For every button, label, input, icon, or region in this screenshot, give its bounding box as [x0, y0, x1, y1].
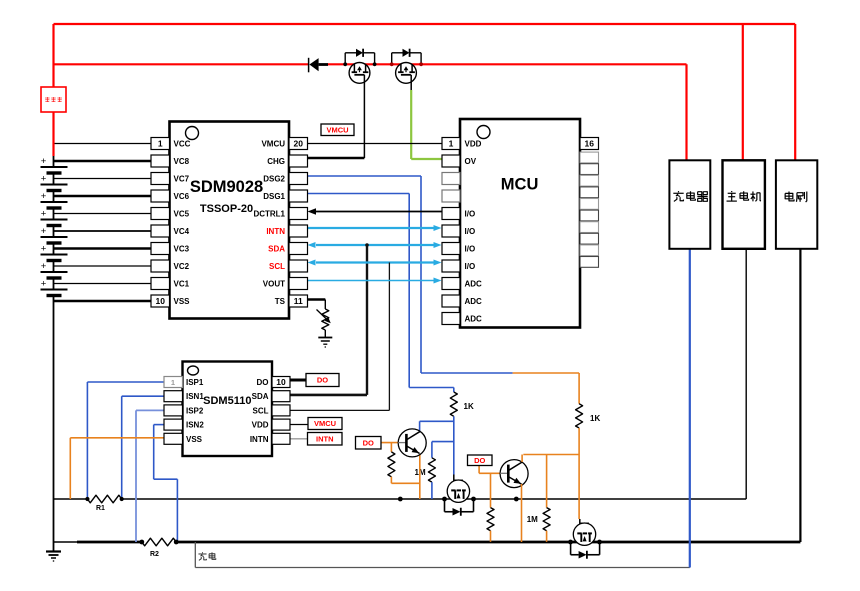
svg-text:DO: DO: [257, 378, 269, 387]
svg-text:1K: 1K: [590, 414, 600, 423]
svg-text:VMCU: VMCU: [314, 419, 336, 428]
svg-text:INTN: INTN: [266, 227, 285, 236]
svg-text:1: 1: [449, 139, 454, 149]
svg-text:ISP1: ISP1: [186, 378, 204, 387]
svg-text:ADC: ADC: [465, 315, 483, 324]
svg-text:CHG: CHG: [267, 157, 285, 166]
svg-text:1: 1: [171, 378, 175, 387]
svg-text:+: +: [41, 156, 47, 167]
svg-text:VC4: VC4: [174, 227, 190, 236]
svg-text:1: 1: [158, 139, 163, 149]
svg-text:TSSOP-20: TSSOP-20: [200, 203, 253, 215]
svg-text:10: 10: [156, 296, 166, 306]
svg-text:ISP2: ISP2: [186, 406, 204, 415]
svg-text:10: 10: [276, 377, 286, 387]
svg-text:I/O: I/O: [465, 245, 476, 254]
svg-text:VOUT: VOUT: [263, 280, 285, 289]
svg-text:VC2: VC2: [174, 262, 190, 271]
svg-text:SDM9028: SDM9028: [190, 178, 263, 196]
svg-text:SDA: SDA: [268, 245, 285, 254]
svg-text:+: +: [41, 174, 47, 185]
svg-text:R1: R1: [96, 505, 105, 512]
svg-text:16: 16: [585, 139, 595, 149]
svg-text:INTN: INTN: [316, 434, 334, 443]
svg-text:SDM5110: SDM5110: [203, 395, 251, 407]
svg-text:+: +: [41, 209, 47, 220]
svg-text:DSG2: DSG2: [263, 175, 285, 184]
svg-text:OV: OV: [465, 157, 477, 166]
svg-text:DSG1: DSG1: [263, 192, 285, 201]
svg-text:I/O: I/O: [465, 210, 476, 219]
svg-text:INTN: INTN: [250, 435, 269, 444]
svg-text:VDD: VDD: [465, 140, 482, 149]
svg-text:VC3: VC3: [174, 245, 190, 254]
svg-text:R2: R2: [150, 551, 159, 558]
svg-text:DCTRL1: DCTRL1: [253, 210, 285, 219]
svg-text:ISN2: ISN2: [186, 421, 204, 430]
svg-text:I/O: I/O: [465, 227, 476, 236]
svg-text:VC5: VC5: [174, 210, 190, 219]
svg-text:VC6: VC6: [174, 192, 190, 201]
svg-text:1M: 1M: [527, 515, 538, 524]
svg-text:VSS: VSS: [186, 435, 203, 444]
svg-text:I/O: I/O: [465, 262, 476, 271]
svg-text:VSS: VSS: [174, 297, 191, 306]
svg-text:+: +: [41, 226, 47, 237]
svg-text:VDD: VDD: [252, 421, 269, 430]
svg-text:+: +: [41, 191, 47, 202]
svg-text:VMCU: VMCU: [326, 125, 348, 134]
svg-text:ADC: ADC: [465, 280, 483, 289]
svg-text:11: 11: [294, 296, 303, 306]
svg-text:+: +: [41, 261, 47, 272]
svg-text:VC7: VC7: [174, 175, 190, 184]
svg-text:VCC: VCC: [174, 140, 191, 149]
svg-text:VMCU: VMCU: [261, 140, 285, 149]
svg-text:20: 20: [294, 139, 304, 149]
svg-text:DO: DO: [317, 376, 328, 385]
svg-text:+: +: [41, 244, 47, 255]
svg-text:DO: DO: [363, 438, 374, 447]
svg-text:1K: 1K: [464, 402, 474, 411]
svg-text:ISN1: ISN1: [186, 392, 204, 401]
svg-text:ADC: ADC: [465, 297, 483, 306]
svg-text:SCL: SCL: [269, 262, 285, 271]
svg-text:VC1: VC1: [174, 280, 190, 289]
svg-text:MCU: MCU: [501, 176, 539, 194]
svg-text:VC8: VC8: [174, 157, 190, 166]
svg-text:DO: DO: [474, 456, 485, 465]
svg-text:SCL: SCL: [253, 406, 269, 415]
svg-text:TS: TS: [275, 297, 286, 306]
svg-text:+: +: [41, 279, 47, 290]
svg-text:SDA: SDA: [252, 392, 269, 401]
